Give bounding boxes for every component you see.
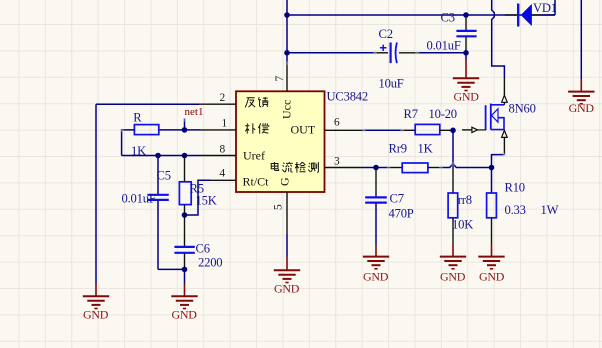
ground GND under C7: [363, 245, 389, 283]
pin 6 stub: [325, 129, 364, 131]
svg-text:10-20: 10-20: [429, 107, 457, 121]
svg-text:0.01uF: 0.01uF: [427, 39, 461, 53]
transistor Q1 8N60: [462, 78, 536, 155]
wire top rail: [287, 0, 555, 15]
node net1 junction: [182, 127, 188, 133]
IC U1 UC3842: [236, 90, 368, 192]
wire R left elbow: [122, 130, 135, 156]
node C6 bottom junction: [182, 267, 188, 273]
wire diode to corner: [542, 14, 555, 16]
resistor R10: [487, 168, 559, 245]
capacitor C7: [365, 168, 414, 246]
svg-text:GND: GND: [172, 308, 198, 322]
wire pin3 net: [363, 167, 376, 169]
wire pin3 net right with hop: [441, 164, 492, 168]
wire pin4 net: [185, 180, 211, 215]
svg-text:1K: 1K: [418, 141, 433, 155]
wire C7 node to Rr9: [376, 167, 387, 169]
resistor R5: [179, 156, 216, 216]
node Vcc rail / top junction: [284, 12, 290, 18]
ground GND under C6: [171, 269, 197, 321]
ground GND under C3: [453, 53, 479, 104]
svg-text:R: R: [133, 110, 142, 124]
node C7 junction: [373, 165, 379, 171]
node C3 bottom junction: [463, 50, 469, 56]
wire source elbow: [492, 155, 505, 168]
ground GND under rr8: [440, 244, 466, 283]
svg-text:C5: C5: [157, 169, 171, 183]
svg-text:GND: GND: [440, 269, 466, 283]
svg-text:5: 5: [273, 204, 285, 210]
pin D arrow: [503, 78, 505, 96]
svg-text:2200: 2200: [198, 255, 222, 269]
IC label fankui (feedback): [245, 97, 268, 107]
svg-text:C6: C6: [196, 241, 210, 255]
svg-text:6: 6: [334, 116, 340, 128]
svg-text:1: 1: [222, 118, 228, 130]
pin 8 stub: [200, 155, 236, 157]
svg-text:0.33: 0.33: [505, 203, 526, 217]
pin S arrow: [502, 130, 508, 137]
pin 2 stub: [199, 103, 236, 105]
node C5 junction: [155, 153, 161, 159]
wire net1 stub: [184, 119, 186, 130]
svg-text:GND: GND: [363, 269, 389, 283]
svg-text:VD1: VD1: [533, 1, 557, 15]
IC label dianliu jiance (current sense): [271, 162, 318, 173]
pin 4 stub: [210, 179, 236, 181]
capacitor C3: [427, 10, 477, 53]
svg-text:GND: GND: [569, 101, 595, 115]
svg-text:GND: GND: [479, 269, 505, 283]
wire top-right GND drop: [580, 0, 582, 79]
svg-text:net1: net1: [185, 106, 204, 118]
pin 7 stub: [286, 53, 288, 63]
svg-text:R7: R7: [404, 107, 418, 121]
svg-text:8: 8: [220, 144, 226, 156]
wire drain riser with hop: [492, 0, 505, 78]
svg-text:C3: C3: [441, 10, 455, 24]
ground GND top-right: [568, 79, 594, 115]
wire pin2 net: [96, 104, 199, 283]
svg-text:0.01uF: 0.01uF: [122, 191, 156, 205]
svg-text:3: 3: [334, 156, 340, 168]
pin 3 stub: [325, 167, 364, 169]
diode VD1: [505, 1, 557, 27]
ground GND bottom-left: [83, 284, 109, 322]
wire pin8 net (Uref): [122, 155, 200, 157]
body: [491, 104, 505, 106]
wire end hotspot markers (faint): [120, 51, 506, 169]
wire C5 bottom elbow: [158, 268, 185, 270]
resistor R: [131, 110, 159, 158]
node pin4 junction: [182, 212, 188, 218]
svg-text:8N60: 8N60: [509, 101, 536, 115]
svg-text:UC3842: UC3842: [327, 90, 368, 104]
svg-text:470P: 470P: [389, 206, 414, 220]
node R5 junction: [182, 153, 188, 159]
svg-text:C7: C7: [390, 191, 404, 205]
svg-text:GND: GND: [83, 308, 109, 322]
capacitor C6: [174, 215, 222, 269]
svg-text:G: G: [278, 177, 292, 186]
IC label buchang (compensation): [245, 123, 268, 133]
svg-text:2: 2: [220, 92, 226, 104]
ground GND under R10: [478, 244, 504, 283]
pin 5 stub: [286, 192, 288, 234]
resistor rr8: [448, 167, 473, 244]
svg-text:10uF: 10uF: [379, 76, 404, 90]
capacitor C2: [374, 27, 420, 90]
svg-text:Ucc: Ucc: [280, 100, 294, 119]
svg-text:GND: GND: [454, 89, 480, 103]
resistor Rr9: [387, 141, 441, 172]
svg-text:7: 7: [274, 76, 286, 82]
wire Vcc rail riser: [286, 0, 288, 53]
svg-text:Uref: Uref: [243, 149, 265, 163]
svg-text:Rr9: Rr9: [389, 141, 407, 155]
svg-text:Rt/Ct: Rt/Ct: [243, 175, 270, 189]
node gate junction: [450, 128, 456, 134]
node pin7 junction: [284, 50, 290, 56]
svg-text:C2: C2: [379, 27, 393, 41]
ground GND pin5: [274, 234, 300, 296]
svg-text:OUT: OUT: [291, 123, 316, 137]
svg-text:4: 4: [220, 168, 226, 180]
pin 1 stub: [200, 129, 236, 131]
pin G arrow: [462, 129, 472, 131]
node C3 tap junction: [463, 12, 469, 18]
capacitor C5: [122, 156, 171, 270]
wire C2 to C3 node: [420, 52, 466, 54]
svg-text:R10: R10: [505, 180, 525, 194]
svg-text:rr8: rr8: [458, 193, 472, 207]
wire gate drop: [452, 130, 454, 167]
svg-text:GND: GND: [274, 282, 300, 296]
svg-text:1W: 1W: [541, 203, 559, 217]
wire pin6 net: [364, 129, 403, 131]
node source junction: [489, 165, 495, 171]
svg-text:10K: 10K: [452, 218, 473, 232]
wire C2 left: [287, 52, 374, 54]
wire pin1 net: [159, 129, 200, 131]
resistor R7: [402, 107, 457, 135]
